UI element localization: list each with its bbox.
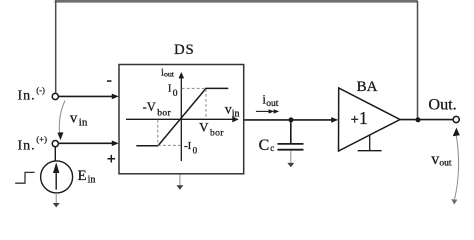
svg-text:out: out [439, 159, 452, 169]
svg-text:bor: bor [210, 129, 224, 139]
node: In.(+) input terminal [52, 141, 58, 147]
ground (below E_in, arrow style) [55, 193, 57, 204]
svg-text:In.: In. [18, 139, 36, 154]
capacitor C_c [290, 120, 292, 143]
svg-text:c: c [270, 143, 274, 153]
svg-text:E: E [78, 168, 87, 184]
node: In.(-) input terminal [52, 93, 58, 99]
wire: BA output to Out terminal [400, 119, 453, 121]
wire: In.(+) terminal to current source [54, 147, 56, 161]
svg-text:+: + [351, 112, 359, 128]
wire: In.(-) terminal to DS inverting input [59, 95, 113, 97]
current source E_in [41, 161, 73, 193]
graph horizontal axis v_in [126, 118, 233, 120]
saturation transfer curve [136, 88, 228, 145]
dashed helper line: -V_bor [157, 120, 159, 145]
dashed helper line: -I0 level [158, 144, 181, 146]
svg-text:V: V [199, 119, 209, 134]
ground (BA) [369, 136, 371, 151]
svg-text:1: 1 [359, 108, 368, 128]
svg-text:0: 0 [173, 89, 178, 99]
graph vertical axis i_out [180, 77, 182, 161]
wire: feedback right vertical [417, 1, 419, 120]
svg-text:C: C [259, 137, 270, 154]
svg-text:v: v [431, 151, 439, 168]
svg-text:Out.: Out. [428, 96, 456, 114]
svg-text:out: out [266, 99, 279, 109]
svg-text:-I: -I [184, 140, 192, 152]
dashed helper line: V_bor [205, 89, 207, 119]
wire: feedback left vertical [55, 1, 57, 93]
svg-text:v: v [70, 111, 78, 127]
svg-text:In.: In. [18, 89, 36, 104]
svg-text:in: in [232, 108, 240, 119]
buffer amplifier BA (+1) [339, 88, 401, 151]
svg-text:v: v [225, 102, 232, 117]
junction node (capacitor tap) [289, 117, 294, 122]
svg-text:bor: bor [157, 108, 171, 118]
svg-text:in: in [79, 117, 88, 129]
ground (below DS block, arrow style) [179, 175, 181, 187]
junction node (feedback tap) [416, 117, 421, 122]
v_in measurement arrow (curved, from In.- toward In.+) [59, 101, 65, 137]
svg-text:-V: -V [143, 100, 156, 114]
block DS (saturation block) [119, 65, 244, 174]
wire: DS output to BA input [244, 119, 332, 121]
svg-text:(+): (+) [36, 134, 47, 144]
step input waveform symbol [15, 172, 35, 183]
ground (below C_c, arrow style) [290, 151, 292, 163]
svg-text:(-): (-) [36, 85, 45, 95]
svg-text:0: 0 [193, 145, 198, 155]
label: + (non-inverting input of DS) [108, 155, 116, 163]
wire: In.(+) terminal to DS non-inverting input [59, 142, 113, 144]
label: - (inverting input of DS) [107, 80, 112, 82]
node: Out terminal [453, 116, 459, 122]
svg-text:BA: BA [357, 79, 378, 95]
wire: top feedback horizontal [55, 0, 418, 3]
svg-text:DS: DS [174, 42, 195, 58]
svg-text:out: out [164, 70, 175, 79]
dashed helper line: I0 level [182, 87, 206, 89]
svg-text:in: in [88, 175, 96, 186]
v_out measurement arrow (curved) [455, 134, 459, 200]
svg-text:I: I [168, 83, 172, 94]
